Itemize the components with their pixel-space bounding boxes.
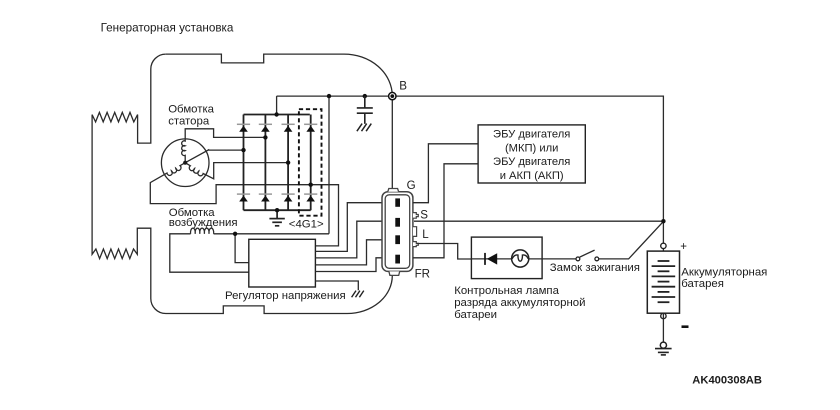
- connector top tab: [388, 189, 399, 192]
- junction node battery positive: [661, 219, 665, 223]
- connector shell (outer): [382, 192, 413, 272]
- field winding inductor: [191, 228, 214, 234]
- wire: regulator to S pin: [315, 221, 382, 258]
- generator body outline lower/left with slip-ring zigzags: [92, 54, 392, 313]
- junction node on B line (capacitor): [363, 94, 367, 98]
- battery case: [647, 251, 679, 313]
- rectifier bottom bus: [244, 209, 311, 211]
- lamp bulb: [512, 250, 529, 267]
- junction node on B line (field tap): [327, 94, 331, 98]
- svg-text:L: L: [422, 228, 429, 241]
- connector pin L (3): [395, 235, 400, 244]
- terminal B node: [389, 92, 396, 99]
- junction node branch4/phase: [309, 183, 313, 187]
- diode D4 (top row): [306, 126, 315, 132]
- voltage regulator U1 box: [249, 239, 316, 287]
- stator phase winding (lower-right) wire to bridge branch 3: [185, 163, 288, 179]
- wire: field winding left end to regulator: [170, 234, 249, 272]
- diode D7 (bottom row): [284, 196, 293, 202]
- wire: switch to battery positive: [599, 221, 664, 259]
- rectifier branch 4: [310, 115, 312, 211]
- wire: G to ECU: [413, 144, 478, 203]
- battery negative terminal: [661, 313, 666, 318]
- label minus: [682, 325, 689, 328]
- svg-text:+: +: [680, 241, 687, 253]
- ECU (engine control unit) box: [478, 125, 585, 183]
- wire: field winding right end to B tap and to regulator: [214, 233, 329, 235]
- lamp diode: [487, 253, 497, 264]
- rectifier top bus: [244, 114, 310, 116]
- stator neutral diagonal wire to bridge branch 1: [185, 150, 243, 163]
- connector latch near L: [413, 227, 417, 237]
- battery ground terminal ring: [660, 342, 666, 348]
- battery positive terminal: [661, 243, 666, 248]
- connector pin S (2): [395, 218, 400, 227]
- rectifier branch 2: [264, 115, 266, 211]
- ignition switch contact left: [576, 257, 580, 261]
- svg-text:B: B: [399, 80, 407, 93]
- junction node branch1/neutral: [241, 148, 245, 152]
- ground (capacitor, chassis style): [357, 124, 371, 132]
- wire top bus to B line: [276, 96, 278, 114]
- diode D3 (top row): [284, 126, 293, 132]
- svg-text:S: S: [420, 209, 428, 222]
- ground (regulator, chassis style): [352, 291, 364, 298]
- svg-text:G: G: [407, 179, 416, 192]
- connector bottom tab: [389, 271, 400, 275]
- wire: S to battery positive: [414, 220, 663, 222]
- wire: regulator ground lead: [315, 281, 358, 290]
- svg-text:Аккумуляторная: Аккумуляторная: [681, 266, 767, 278]
- svg-text:Обмотка: Обмотка: [168, 104, 214, 116]
- wire: battery negative to ground: [662, 313, 664, 342]
- wire: regulator to G pin: [315, 203, 382, 252]
- svg-text:Замок зажигания: Замок зажигания: [550, 262, 640, 274]
- ground (battery): [655, 349, 672, 355]
- svg-text:Регулятор напряжения: Регулятор напряжения: [225, 290, 346, 302]
- junction node bottom bus ground: [275, 208, 279, 212]
- junction node field/regulator: [233, 232, 237, 236]
- svg-text:статора: статора: [168, 115, 210, 127]
- svg-text:AK400308AB: AK400308AB: [692, 374, 762, 386]
- optional diode branch dashed box <4G1>: [299, 109, 322, 216]
- ignition switch contact right: [595, 257, 599, 261]
- svg-text:разряда аккумуляторной: разряда аккумуляторной: [454, 297, 585, 309]
- connector shell (inner): [385, 195, 410, 268]
- charge warning lamp box: [471, 237, 542, 279]
- diode D5 (bottom row): [239, 196, 248, 202]
- svg-text:батареи: батареи: [454, 309, 497, 321]
- rectifier branch 3: [287, 115, 289, 211]
- wire: B+ tap down to field winding: [328, 96, 330, 234]
- rectifier branch 1: [243, 115, 245, 211]
- capacitor (noise suppressor): [357, 96, 373, 124]
- svg-text:батарея: батарея: [681, 278, 724, 290]
- wire: regulator to L pin: [315, 240, 382, 265]
- wire: FR to ECU: [413, 164, 478, 258]
- stator winding circle: [161, 139, 209, 187]
- diode D6 (bottom row): [261, 196, 270, 202]
- junction node top bus riser: [274, 112, 278, 116]
- junction node branch2/phase: [263, 135, 267, 139]
- ignition switch blade: [580, 250, 595, 257]
- wire: B+ output line to battery: [277, 96, 664, 251]
- diode D8 (bottom row): [306, 196, 315, 202]
- connector pin G (1): [395, 198, 400, 206]
- ground (rectifier bottom bus): [269, 210, 284, 226]
- wire through lamp box: [471, 258, 511, 260]
- svg-text:Генераторная установка: Генераторная установка: [101, 22, 234, 35]
- svg-text:FR: FR: [415, 267, 430, 280]
- diode D2 (top row): [261, 126, 270, 132]
- diode D1 (top row): [239, 126, 248, 132]
- generator body outline (case): [166, 54, 392, 188]
- junction node branch3/phase: [286, 160, 290, 164]
- stator star center node: [183, 161, 187, 165]
- battery cell plates: [652, 261, 676, 302]
- stator phase winding (lower-left) wire to 4G1 branch and regulator P input: [150, 163, 338, 246]
- svg-text:ЭБУ двигателя(МКП) илиЭБУ двиг: ЭБУ двигателя(МКП) илиЭБУ двигателяи АКП…: [493, 129, 570, 182]
- wire: L to charge warning lamp: [417, 244, 472, 260]
- svg-text:<4G1>: <4G1>: [289, 219, 324, 231]
- wire: regulator to FR pin: [315, 258, 382, 272]
- stator phase winding (top) and wire to bridge branch 2: [182, 129, 266, 163]
- connector latch below L: [413, 242, 418, 247]
- connector latch near S: [413, 213, 418, 219]
- svg-text:возбуждения: возбуждения: [169, 217, 238, 229]
- connector pin FR (4): [395, 255, 400, 264]
- svg-text:Контрольная лампа: Контрольная лампа: [454, 285, 559, 297]
